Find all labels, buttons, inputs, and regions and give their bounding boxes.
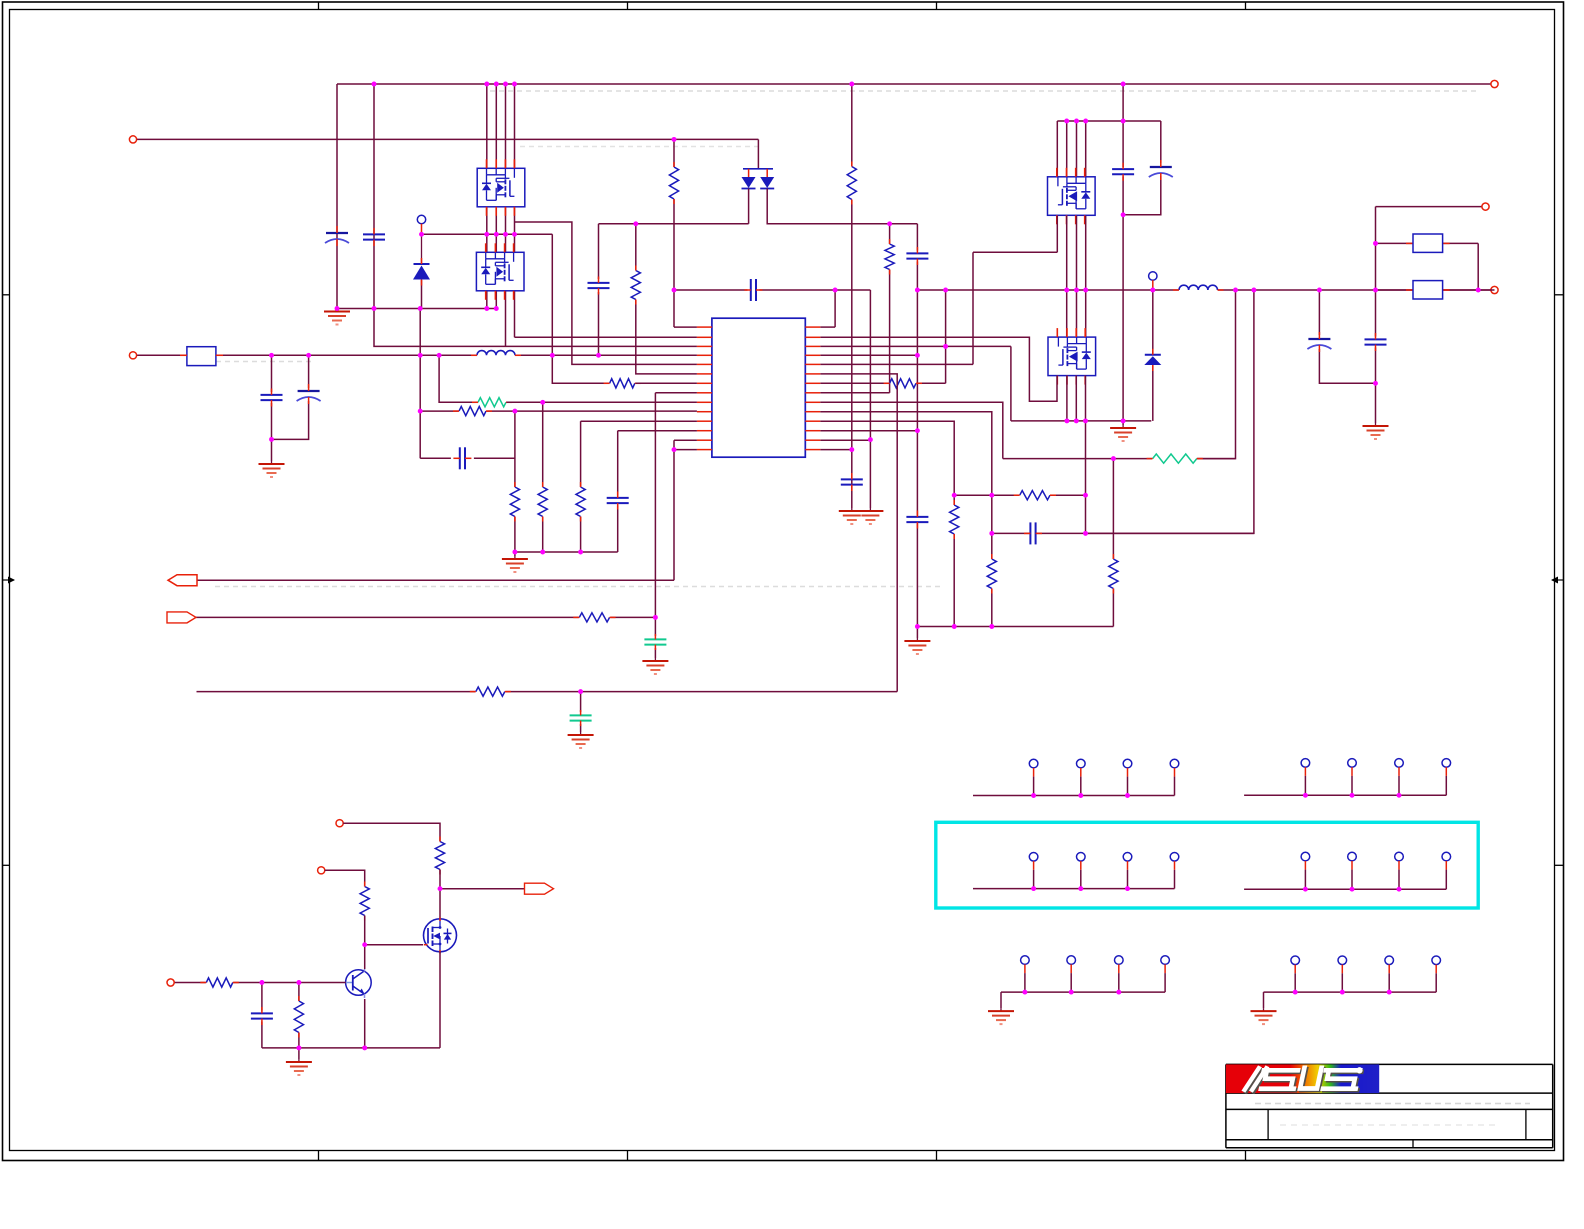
wire emitter bus y=1047.9	[262, 1047, 440, 1049]
ground G6	[1375, 423, 1377, 426]
wire bus y=552	[515, 551, 618, 553]
inductor L2	[1179, 285, 1218, 290]
wire pin R6 drop x=897.2	[820, 374, 897, 692]
capacitor C15 teal	[644, 638, 666, 640]
connector pin	[1029, 853, 1038, 862]
resistor R3	[885, 244, 894, 270]
wire emitter column	[364, 999, 366, 1048]
resistor box RB2	[1413, 281, 1443, 299]
capacitor C7	[1112, 168, 1134, 170]
wire pack3 columns bottom	[1066, 216, 1068, 337]
wire cap branch x=271.5	[271, 355, 273, 392]
diode D2 dual pair	[743, 168, 773, 170]
wire pack column A4	[514, 84, 516, 168]
connector bus wire	[973, 888, 1175, 890]
connector pin	[1077, 759, 1086, 768]
inductor L1	[477, 351, 515, 356]
wire riser x=973	[972, 252, 974, 364]
wire y=252.3 link	[973, 251, 1057, 253]
wire column x=1160.8 with C8	[1160, 121, 1162, 163]
connector pin	[1291, 956, 1300, 965]
IC U1 controller	[712, 318, 805, 457]
resistor R11	[576, 487, 585, 517]
transistor Q3 dual-FET package	[1048, 177, 1096, 216]
ground Gc	[1263, 1008, 1265, 1011]
wire y=458.3 net	[420, 457, 451, 459]
resistor R16	[1109, 559, 1118, 589]
resistor R20	[360, 887, 369, 916]
IC pin stubs	[697, 326, 712, 328]
connector pin	[1442, 852, 1451, 861]
resistor R22	[294, 1001, 303, 1033]
wire x=598.5 column with C14	[598, 224, 600, 279]
resistor box RB1	[1413, 234, 1443, 252]
ground G8	[654, 658, 656, 661]
wire x=1113.4 column	[1112, 459, 1114, 559]
capacitor C9 polarized	[1308, 338, 1330, 340]
wire D2 left leg	[748, 189, 750, 224]
wire output feed y=206.6	[1376, 206, 1486, 208]
connector pin	[1301, 852, 1310, 861]
resistor R18	[476, 687, 505, 696]
wire pack3 columns top	[1056, 121, 1058, 177]
transistor Q5 NMOS	[424, 919, 457, 952]
ground G9	[514, 556, 516, 559]
terminal VIN rail right	[1491, 80, 1498, 87]
wire bias top	[343, 823, 440, 841]
wire cap branch x=261.9	[261, 983, 263, 1011]
resistor R21	[206, 978, 233, 987]
ground G1	[336, 309, 338, 312]
wire left gate feed y=223.8	[599, 223, 749, 225]
wire input net y=355.3	[133, 354, 187, 356]
port C arrow	[525, 883, 554, 894]
wire y=533.4 net	[992, 532, 1030, 534]
port B arrow	[167, 612, 196, 623]
resistor R15	[1020, 491, 1050, 500]
diode D1	[414, 263, 430, 265]
wire x=674 lower column L13/L14	[674, 439, 697, 441]
wire pack4 columns bottom	[1066, 376, 1068, 421]
capacitor C17 series	[1029, 522, 1031, 544]
wire pin R11 drop x=954.2	[820, 421, 954, 505]
wire x=420.2 column	[419, 309, 421, 412]
wire pin R12 y=430.7	[820, 430, 917, 432]
ground G10	[580, 732, 582, 735]
ground G11	[298, 1059, 300, 1062]
wire pin R9 drop x=1002.8	[820, 402, 1003, 458]
capacitor C1 polarized	[326, 232, 348, 234]
capacitor C19	[251, 1012, 273, 1014]
resistor R4	[890, 379, 916, 388]
transistor Q4 dual-FET package	[1048, 337, 1096, 376]
wire pin R4 y=355.3	[820, 354, 917, 356]
wire source column	[439, 952, 441, 1048]
connector bus wire	[973, 795, 1175, 797]
transistor Q6 NPN	[346, 970, 372, 996]
connector pin	[1395, 852, 1404, 861]
ground G4	[916, 638, 918, 641]
wire y=121 sub-rail	[1057, 120, 1161, 122]
connector pin	[1432, 956, 1441, 965]
wire second rail y=139.4	[133, 138, 758, 140]
diode D3 column	[1152, 290, 1154, 354]
wire column x=1253.9	[1086, 290, 1254, 533]
wire resistor columns to bus y=552	[514, 411, 516, 487]
wire x=552.3 column	[552, 234, 609, 383]
wire drain node	[439, 870, 441, 889]
connector pin	[1123, 853, 1132, 862]
wire pin R10 drop x=991.8	[820, 412, 992, 559]
connector bus wire	[1001, 991, 1165, 993]
wire base net y=982.5	[174, 982, 206, 984]
capacitor C5	[906, 252, 928, 254]
wire column x=851.8	[851, 84, 853, 167]
transistor Q2 dual-FET package	[476, 252, 524, 290]
wire port C link	[440, 888, 524, 890]
wire x=617.7 column	[618, 430, 697, 432]
resistor R10	[538, 487, 547, 517]
wire pack column A1	[486, 84, 488, 168]
component box FB1	[187, 347, 216, 366]
wire bus ground drop	[1263, 992, 1265, 1008]
wire pack column A2	[495, 84, 497, 168]
connector pin	[1442, 759, 1451, 768]
wire port A rail y=580.2	[197, 579, 674, 581]
wire res branch x=298.9	[298, 983, 300, 1002]
capacitor C13 series	[459, 447, 461, 469]
wire mid rail y=290 right segment	[917, 289, 1178, 291]
wire x=580.6 drop with teal cap	[580, 692, 582, 712]
connector pin	[1161, 956, 1170, 965]
right border arrow marker	[1552, 579, 1564, 581]
resistor R9	[510, 487, 519, 517]
resistor R7	[610, 379, 635, 388]
wire gate link	[365, 944, 423, 946]
wire bias2	[325, 870, 365, 886]
resistor R13	[987, 559, 996, 589]
resistor R19	[435, 842, 444, 870]
ground G7	[271, 461, 273, 464]
wire bus y=626.5	[917, 626, 1113, 628]
wire pack column A3	[505, 84, 507, 168]
terminal bias top	[336, 820, 343, 827]
connector bus wire	[1264, 991, 1437, 993]
wire column x=917.4	[916, 224, 918, 251]
capacitor C12 polarized	[298, 390, 320, 392]
ghost text in title rows	[1255, 1103, 1530, 1105]
wire x=542.7 column	[542, 402, 544, 487]
wire collector column	[364, 916, 366, 945]
connector pin	[1029, 759, 1038, 768]
wire y=234.3 gate rail	[422, 233, 553, 235]
wire Q1 source link y=222	[515, 222, 697, 364]
connector pin	[1338, 956, 1347, 965]
wire D1 column	[421, 224, 423, 235]
connector pin	[1170, 759, 1179, 768]
wire D2 right leg to y=223.8	[767, 189, 917, 224]
capacitor C11	[261, 394, 283, 396]
ghost text under top rail	[490, 90, 1480, 92]
resistor R12 teal	[1153, 454, 1197, 463]
wire VIN top rail y=84	[337, 83, 1495, 85]
connector pin	[1348, 852, 1357, 861]
connector bus wire	[1244, 794, 1446, 796]
capacitor C6	[906, 516, 928, 518]
terminal pin above L2	[1149, 272, 1157, 280]
connector pin	[1077, 853, 1086, 862]
wire cap branch x=308.6	[308, 355, 310, 388]
junction dots	[372, 82, 377, 87]
wire x=655.4 column	[654, 393, 656, 618]
wire column x=889.6	[889, 224, 891, 244]
wire riser x=835 (pin R1)	[834, 290, 836, 327]
connector bus wire	[1244, 888, 1446, 890]
resistor R1 top	[669, 167, 678, 199]
ghost text under port rail	[215, 586, 940, 588]
ground G5	[1122, 425, 1124, 428]
wire x=635.8 column with R8	[635, 224, 637, 271]
capacitor C4	[841, 478, 863, 480]
wire Q3 pin1 to y=252.3	[1056, 216, 1058, 252]
wire column x=1123.1	[1122, 84, 1124, 167]
resistor R17	[579, 613, 609, 622]
capacitor C14	[588, 282, 610, 284]
wire x=439.1 drop to teal resistor	[439, 355, 477, 402]
connector pin	[1021, 956, 1030, 965]
wire y=383.3 to IC	[636, 382, 697, 384]
terminal base input	[167, 979, 174, 986]
wire dual diode stem	[757, 139, 759, 168]
transistor Q1 dual-FET package	[477, 168, 525, 207]
diode D3	[1145, 354, 1161, 356]
resistor R5	[459, 407, 486, 416]
wire bus ground drop	[1000, 992, 1002, 1008]
wire resistor column x=674 upper	[673, 139, 675, 167]
wire x=580.6 column	[581, 420, 697, 422]
terminal pin D1 top	[417, 215, 425, 223]
wire stub from C2 column to L3 net	[374, 309, 506, 347]
capacitor C16	[607, 497, 629, 499]
terminal mid rail right	[1491, 286, 1498, 293]
connector pin	[1385, 956, 1394, 965]
capacitor C10	[1365, 338, 1387, 340]
capacitor C8 polarized	[1150, 166, 1172, 168]
wire box network	[1376, 242, 1414, 244]
connector pin	[1067, 956, 1076, 965]
port A arrow	[168, 575, 197, 586]
connector pin	[1123, 759, 1132, 768]
connector pin	[1301, 759, 1310, 768]
ghost text under input net	[216, 361, 312, 363]
terminal bias2	[318, 867, 325, 874]
terminal out1	[1482, 203, 1489, 210]
wire port B rail y=617.4	[196, 616, 579, 618]
resistor R14	[950, 505, 959, 534]
terminal input	[129, 352, 136, 359]
ghost text under mid rail	[520, 146, 758, 148]
wire ground rail y=308.5	[337, 308, 496, 310]
wire y=420.9 bus	[1011, 420, 1151, 422]
wire riser x=945.6 (pin R1b)	[945, 290, 947, 383]
wire y=495.2 net	[954, 494, 1019, 496]
wire pin R13 y=440.2	[820, 439, 870, 441]
wire port rail y=691.6	[197, 691, 476, 693]
wire y=402.3 to IC	[507, 401, 697, 403]
capacitor C3 series	[750, 279, 752, 301]
resistor R2	[847, 167, 856, 200]
wire riser x=1010.9 (pin R3)	[1010, 346, 1012, 421]
terminal rail2 left	[129, 136, 136, 143]
wire mid rail y=290 left segment	[674, 289, 748, 291]
left border arrow marker	[3, 579, 15, 581]
connector pin	[1115, 956, 1124, 965]
resistor R8	[631, 271, 640, 300]
wire y=458.6 net	[1003, 458, 1152, 460]
ground G2	[869, 508, 871, 511]
wire pin R14 y=449.6	[820, 449, 852, 451]
wire V374	[373, 84, 375, 309]
wire x=1085.5 column	[1085, 421, 1087, 495]
connector pin	[1348, 759, 1357, 768]
connector pin	[1170, 853, 1179, 862]
wire pin R2 staircase to Q4	[820, 337, 1057, 401]
wire column x=1319.4 with C9	[1318, 290, 1320, 335]
wire corner rail to C1	[336, 84, 338, 309]
connector pin	[1395, 759, 1404, 768]
capacitor C2	[363, 233, 385, 235]
ground Gc	[1000, 1008, 1002, 1011]
wire column x=1235.5	[1197, 290, 1236, 459]
wire y=411.1 net	[420, 410, 458, 412]
wire x=870 column	[869, 290, 871, 440]
capacitor C18 teal	[570, 714, 592, 716]
highlight box	[936, 822, 1478, 908]
title block frame	[1226, 1063, 1553, 1065]
ground G3	[851, 508, 853, 511]
resistor R6 teal	[478, 398, 506, 407]
wire column x=1375.9 with C10	[1375, 207, 1377, 337]
